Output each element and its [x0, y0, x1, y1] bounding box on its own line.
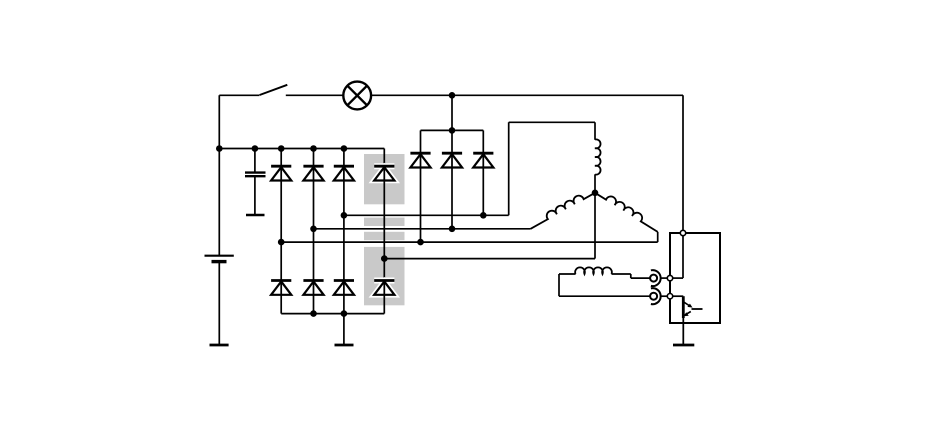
- wire: diode VD9 to phase wire: [420, 167, 422, 242]
- diode VD2 (positive rectifier, column 2): [303, 166, 323, 181]
- capacitor C plates: [245, 173, 266, 177]
- wire: internal, top terminal down: [682, 236, 684, 278]
- node: left vertical / main bus: [216, 145, 223, 152]
- field winding LE coil: [575, 267, 612, 274]
- wire: column 2 phase link: [313, 180, 315, 280]
- wire: bottom bus to ground: [343, 314, 345, 345]
- wire: phase W1 (stator phase 3 to bridge col3): [344, 214, 509, 216]
- terminal (regulator lower-left, field -): [667, 294, 672, 299]
- node: lamp wire / trio-bus tap: [449, 92, 456, 99]
- wire: diode VD6 to bottom bus: [313, 295, 315, 314]
- wire: neutral riser to star point: [594, 193, 596, 259]
- node: column 1 phase junction: [278, 239, 285, 246]
- node: trio bus junction: [449, 127, 456, 134]
- node: column 4 phase junction: [381, 255, 388, 262]
- node: bus-col2: [310, 145, 317, 152]
- diode VD10 (field-supply trio): [442, 153, 462, 168]
- stator winding L2 (left diagonal coil): [528, 187, 595, 228]
- wire: field winding bottom lead: [559, 295, 650, 297]
- node: trio diode 2 junction: [449, 226, 456, 233]
- diode VD9 (field-supply trio): [410, 153, 430, 168]
- ground (rectifier): [335, 344, 354, 347]
- wire: phase W3 (stator phase 1 to bridge col1): [281, 241, 658, 243]
- wire: field coil to upper slip ring: [612, 274, 650, 278]
- diode VD7 (negative rectifier, column 3): [334, 281, 354, 296]
- gray highlight band over extra diode arm: [364, 154, 405, 305]
- wire: bottom negative bus: [281, 313, 384, 315]
- wire: bus corner down to extra diode VD4: [383, 149, 385, 167]
- wire: column 1 phase link: [280, 180, 282, 280]
- terminal (regulator upper-left, field +): [667, 275, 672, 280]
- diode VD8 (negative rectifier, column 4): [374, 281, 394, 296]
- slip ring (lower): [650, 293, 657, 300]
- wire: capacitor to ground: [254, 177, 256, 214]
- wire: drop to regulator top terminal: [682, 95, 684, 230]
- wire: left vertical battery feed: [218, 95, 220, 255]
- wire: switch to lamp: [286, 94, 344, 96]
- node: trio diode 1 junction: [417, 239, 424, 246]
- node: bus-col3: [341, 145, 348, 152]
- wire: upper brush to regulator terminal: [661, 277, 667, 279]
- lamp HL (charge indicator): [343, 82, 371, 110]
- wire: lower brush to regulator terminal: [661, 295, 667, 297]
- node: star point: [592, 190, 599, 197]
- ground (battery): [210, 344, 229, 347]
- wire: field winding left side: [558, 274, 560, 296]
- diode VD3 (positive rectifier, column 3): [334, 166, 354, 181]
- wire: diode-trio top bus: [421, 129, 484, 131]
- battery GB plates: [205, 256, 234, 262]
- wire: internal, to upper-left terminal: [673, 277, 683, 279]
- wire: tap down to diode-trio bus: [451, 95, 453, 130]
- diode VD4 (positive rectifier, column 4): [374, 166, 394, 181]
- wire: bus to diode VD1 top: [280, 149, 282, 167]
- wire: diode VD5 to bottom bus: [280, 295, 282, 314]
- diode VD5 (negative rectifier, column 1): [271, 281, 291, 296]
- transistor VT base bar: [682, 296, 685, 318]
- wire: main positive bus: [219, 148, 384, 150]
- diode VD1 (positive rectifier, column 1): [271, 166, 291, 181]
- wire: trio bus to diode VD11: [482, 130, 484, 153]
- wire: neutral W4 (star point to extra diode arm): [384, 258, 595, 260]
- wire: diode VD10 to phase wire: [451, 167, 453, 229]
- field winding LE (rotor) top lead: [559, 273, 576, 275]
- ground (capacitor): [246, 214, 265, 217]
- switch SA (open blade): [260, 85, 288, 95]
- wire: phase W3 riser to right winding: [657, 232, 659, 242]
- wire: transistor emitter path to ground: [682, 318, 684, 346]
- voltage regulator box: [670, 233, 720, 323]
- node: bottom bus col2: [310, 310, 317, 317]
- node: column 2 phase junction: [310, 226, 317, 233]
- transistor VT collector lead: [692, 308, 703, 310]
- wire: lamp to regulator drop: [371, 94, 683, 96]
- node: column 3 phase junction: [341, 212, 348, 219]
- wire: trio bus to diode VD9: [420, 130, 422, 153]
- diode VD11 (field-supply trio): [473, 153, 493, 168]
- diode VD6 (negative rectifier, column 2): [303, 281, 323, 296]
- wire: column 3 phase link: [343, 180, 345, 280]
- wire: battery to ground: [218, 262, 220, 345]
- wire: internal, lower terminal to transistor base: [673, 295, 684, 297]
- node: bottom bus col3: [341, 310, 348, 317]
- wire: phase W1 riser: [508, 122, 510, 215]
- wire: top feed from battery node to switch: [219, 94, 259, 96]
- wire: bus to diode VD2 top: [313, 149, 315, 167]
- node: bus-col1: [278, 145, 285, 152]
- brush (lower): [651, 288, 661, 304]
- wire: diode VD11 to phase wire: [482, 167, 484, 215]
- transistor VT emitter diagonal: [684, 312, 691, 317]
- wire: diode VD7 to bottom bus: [343, 295, 345, 314]
- node: trio diode 3 junction: [480, 212, 487, 219]
- stator winding L1 (right diagonal coil): [595, 188, 661, 232]
- wire: phase W2 (stator phase 2 to bridge col2): [314, 228, 531, 230]
- transistor VT collector diagonal: [684, 302, 693, 307]
- ground (regulator): [673, 344, 694, 347]
- wire: diode VD8 to bottom bus: [383, 295, 385, 314]
- node: bus-capacitor: [252, 145, 259, 152]
- stator winding L3 (top, vertical coil): [595, 122, 601, 193]
- wire: phase W1 top run to stator coil: [509, 121, 595, 123]
- wire: column 4 phase link: [383, 180, 385, 280]
- slip ring (upper): [650, 275, 657, 282]
- wire: bus to capacitor C: [254, 149, 256, 172]
- wire: bus to diode VD3 top: [343, 149, 345, 167]
- brush (upper): [651, 270, 661, 286]
- terminal (regulator top, to lamp): [680, 230, 685, 235]
- wire: trio bus to diode VD10: [451, 130, 453, 153]
